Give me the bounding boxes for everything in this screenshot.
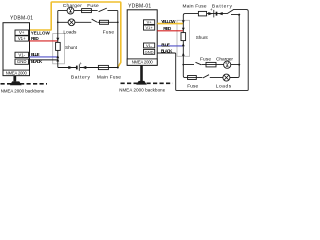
gray shunt enclosure (left) [53, 34, 65, 64]
wire yellow (right) [157, 23, 183, 25]
NMEA backbone dashed bus (right) [121, 82, 173, 84]
svg-text:Battery: Battery [212, 3, 233, 9]
svg-text:Loads: Loads [216, 83, 232, 89]
junction dot row2 right rail [117, 21, 119, 23]
svg-text:YDBM-01: YDBM-01 [128, 3, 151, 9]
junction dot top of right rail (right) [238, 14, 240, 16]
terminal V+ (right) [144, 20, 155, 25]
arrow at red junction (left) [56, 38, 59, 41]
battery lug arrow left side (left) [68, 66, 73, 69]
NMEA 2000 port box (right) [127, 59, 157, 65]
device YDBM-01 (right) body [127, 10, 157, 66]
charger symbol U1 (left) [67, 7, 74, 14]
shunt R-shunt (left) [56, 42, 61, 50]
terminal V1+ (right) [144, 25, 155, 30]
svg-text:Loads: Loads [63, 29, 77, 35]
svg-text:V+: V+ [19, 30, 25, 35]
switch S1 top row (left) [99, 8, 107, 12]
arrow at blue junction (right) [182, 43, 185, 46]
svg-text:YELLOW: YELLOW [161, 19, 176, 24]
switch S4 row1 (right) [196, 62, 202, 65]
svg-text:NMEA 2000: NMEA 2000 [132, 60, 154, 65]
svg-text:BLUE: BLUE [161, 42, 170, 47]
bottom row wire (left) [58, 67, 118, 69]
svg-text:+: + [79, 61, 82, 66]
main fuse F4 (right) [198, 11, 206, 16]
terminal GND (left) [15, 59, 29, 64]
svg-text:V+: V+ [147, 20, 153, 25]
arrow at red junction (right) [182, 28, 185, 31]
terminal V1- (right) [144, 43, 155, 48]
main fuse F3 (left) [98, 65, 108, 69]
circuit frame left rail (left) [57, 11, 60, 68]
row2 wire segments (left) [58, 21, 118, 23]
row2 wire segments (right) [196, 77, 237, 79]
junction dot row1 right rail (right) [238, 64, 240, 66]
wire black GND (left) [29, 59, 58, 61]
wire blue (right) [157, 45, 183, 47]
wire blue (left) [29, 56, 58, 58]
battery B2 plates (right) [213, 10, 215, 18]
svg-text:RED: RED [163, 26, 172, 31]
device YDBM-01 (left) body [3, 23, 30, 76]
fuse F5 row1 (right) [206, 62, 216, 67]
svg-text:V1-: V1- [146, 43, 153, 48]
junction dot row1 left rail (right) [182, 64, 184, 66]
arrow at blue junction (left) [56, 55, 59, 58]
svg-text:NMEA 2000: NMEA 2000 [6, 70, 28, 75]
terminal GND (right) [144, 49, 155, 54]
fuse F2 row2 (left) [100, 20, 109, 24]
terminal V1- (left) [15, 52, 29, 57]
arrow at yellow junction (right) [182, 20, 185, 23]
svg-text:Charger: Charger [216, 56, 233, 62]
top row wire segments (right) [207, 13, 227, 15]
wire red (left) [29, 40, 58, 42]
circuit frame right rail (left) [117, 11, 119, 68]
svg-text:Shunt: Shunt [65, 45, 78, 50]
top row wire segments (left) [58, 10, 118, 12]
switch S5 row2 (right) [203, 75, 209, 78]
svg-text:Fuse: Fuse [187, 83, 198, 89]
loads symbol lamp (left) [68, 19, 75, 26]
svg-text:NMEA 2000 backbone: NMEA 2000 backbone [1, 88, 45, 93]
fuse F1 top row (left) [82, 9, 92, 13]
junction dot bottom right corner (left) [117, 67, 119, 69]
row1 wire segments (right) [183, 64, 239, 66]
svg-text:V1+: V1+ [145, 25, 153, 30]
svg-text:GND: GND [145, 49, 154, 54]
fuse F6 row2 (right) [188, 76, 197, 80]
terminal V1+ (left) [15, 36, 29, 41]
arrow below enclosure (right) [182, 53, 185, 56]
terminal V+ (left) [15, 30, 29, 35]
wire black GND return loop (right) [157, 10, 248, 91]
svg-text:V1-: V1- [18, 52, 25, 57]
NMEA backbone dashed bus (left) [1, 83, 48, 85]
NMEA 2000 port box (left) [3, 70, 30, 76]
switch S2 row2 (left) [92, 19, 97, 22]
shunt R-shunt (right) [181, 33, 186, 41]
svg-text:Fuse: Fuse [103, 29, 115, 35]
junction dot row2 left rail [57, 21, 59, 23]
battery lug arrow right side (left) [82, 66, 87, 69]
NMEA tee connector (left) [10, 81, 22, 85]
NMEA drop cable (left) [13, 76, 16, 82]
svg-text:Battery: Battery [71, 75, 91, 81]
NMEA drop cable (right) [140, 65, 143, 81]
svg-text:YDBM-01: YDBM-01 [10, 16, 33, 22]
svg-text:YELLOW: YELLOW [31, 31, 51, 36]
wire red (right) [157, 30, 183, 32]
svg-text:BLACK: BLACK [31, 59, 43, 64]
gray shunt enclosure (right) [177, 20, 190, 56]
wire yellow V+ loop (left) [29, 2, 121, 67]
svg-text:NMEA 2000 backbone: NMEA 2000 backbone [119, 87, 166, 92]
svg-text:BLACK: BLACK [161, 48, 173, 53]
NMEA tee connector (right) [136, 81, 147, 85]
svg-text:RED: RED [31, 36, 40, 41]
battery lug arrow right side (right) [218, 12, 222, 15]
svg-text:Main Fuse: Main Fuse [97, 75, 121, 81]
svg-text:GND: GND [17, 59, 27, 64]
rail to charger loads right side (right) [230, 15, 239, 78]
charger symbol U2 (right) [224, 61, 231, 68]
svg-text:V1+: V1+ [18, 36, 26, 41]
arrow at black junction (left) [56, 58, 59, 61]
battery B1 plates (left) [76, 66, 78, 70]
svg-text:Shunt: Shunt [196, 35, 209, 40]
svg-text:+: + [210, 7, 213, 12]
loads symbol lamp (right) [223, 74, 230, 81]
switch S3 top row (right) [227, 10, 233, 14]
svg-text:Fuse: Fuse [200, 56, 211, 62]
svg-text:Main Fuse: Main Fuse [183, 3, 207, 9]
svg-text:BLUE: BLUE [31, 52, 40, 57]
battery lug arrow left side (right) [208, 12, 213, 15]
shunt rail with top corner to main fuse (right) [183, 14, 198, 78]
